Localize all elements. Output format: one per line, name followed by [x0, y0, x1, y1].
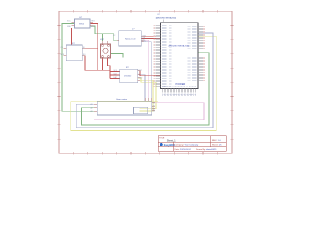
svg-text:SR04: SR04 [79, 24, 85, 26]
svg-text:Sheet_1: Sheet_1 [167, 140, 177, 143]
svg-text:DAT: DAT [114, 76, 117, 79]
svg-text:(ARDUINO MEGA2560): (ARDUINO MEGA2560) [156, 16, 177, 19]
svg-text:EasyEDA: EasyEDA [164, 144, 175, 147]
svg-text:B1: B1 [153, 102, 155, 104]
svg-text:DS1302: DS1302 [124, 75, 132, 77]
svg-text:ARDUINO MEGA 2560: ARDUINO MEGA 2560 [169, 45, 190, 48]
svg-text:B4: B4 [153, 111, 155, 113]
svg-text:Date: 2023-03-24: Date: 2023-03-24 [175, 148, 192, 151]
svg-text:Company: Your Company: Company: Your Company [175, 144, 200, 147]
svg-text:U?: U? [158, 14, 160, 16]
svg-text:TITLE:: TITLE: [159, 137, 165, 139]
svg-text:A1: A1 [91, 103, 93, 106]
svg-text:B2: B2 [153, 106, 155, 108]
svg-text:Gear motor: Gear motor [116, 98, 127, 101]
svg-text:A3: A3 [91, 110, 93, 113]
svg-text:Sheet: 1/1: Sheet: 1/1 [212, 144, 222, 147]
svg-text:Drawn By: daniel0429: Drawn By: daniel0429 [196, 148, 217, 151]
svg-text:Nokia LCD: Nokia LCD [125, 38, 136, 40]
svg-text:RST: RST [139, 70, 142, 72]
svg-text:REV: 1.0: REV: 1.0 [212, 140, 221, 142]
svg-text:A2: A2 [91, 107, 93, 110]
svg-text:POWER: POWER [176, 82, 186, 86]
